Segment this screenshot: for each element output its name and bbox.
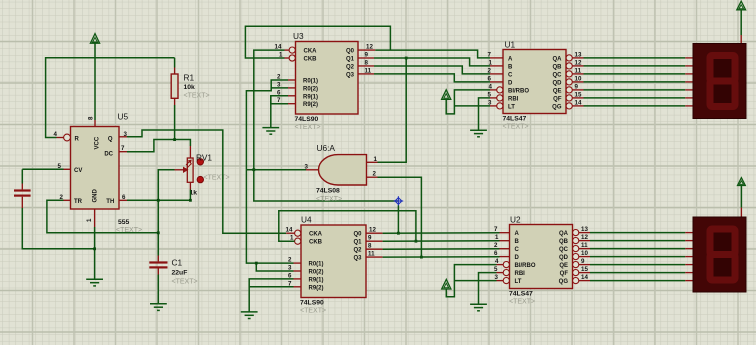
svg-text:8: 8: [365, 59, 369, 66]
svg-text:2: 2: [494, 242, 498, 249]
svg-text:10: 10: [575, 75, 582, 82]
svg-text:12: 12: [581, 234, 588, 241]
svg-text:12: 12: [366, 44, 373, 51]
U2 right bubbles and stubs: [573, 230, 579, 236]
svg-text:VCC: VCC: [95, 136, 101, 149]
svg-text:13: 13: [575, 51, 582, 58]
svg-text:74LS90: 74LS90: [300, 299, 324, 306]
svg-text:QA: QA: [553, 56, 563, 62]
svg-text:<TEXT>: <TEXT>: [509, 299, 535, 306]
wire U4 Q0 to U2 A: [383, 232, 500, 234]
svg-text:9: 9: [575, 83, 579, 90]
wire U3 Q1 to U1 B: [374, 58, 490, 66]
svg-text:10k: 10k: [184, 84, 196, 91]
svg-text:11: 11: [581, 242, 588, 249]
svg-text:<TEXT>: <TEXT>: [503, 124, 529, 131]
svg-text:LT: LT: [515, 279, 522, 285]
svg-text:Q1: Q1: [346, 57, 355, 63]
svg-text:A: A: [508, 56, 513, 62]
svg-text:11: 11: [365, 67, 372, 74]
svg-text:B: B: [508, 64, 513, 70]
svg-text:7: 7: [121, 145, 125, 152]
wire U6 output to reset column: [246, 169, 306, 171]
svg-text:<TEXT>: <TEXT>: [172, 279, 198, 286]
svg-text:R9(2): R9(2): [309, 285, 324, 291]
wire U3 Q2 to U1 C: [374, 66, 490, 74]
counter U4 (74LS90): [301, 225, 366, 298]
wire U2 RBI to ground: [479, 273, 497, 305]
wire U3 Q3 to U1 D: [374, 74, 490, 82]
node (junction diamond): [394, 196, 404, 206]
svg-text:10: 10: [581, 250, 588, 257]
svg-text:QD: QD: [559, 255, 569, 261]
svg-text:QG: QG: [559, 279, 569, 285]
svg-text:74LS08: 74LS08: [316, 187, 340, 194]
svg-text:R0(1): R0(1): [309, 262, 324, 268]
svg-text:B: B: [515, 239, 520, 245]
svg-text:9: 9: [368, 235, 372, 242]
U5 pin stubs: [64, 134, 71, 141]
wire display 2 power pin: [740, 186, 742, 208]
svg-text:BI/RBO: BI/RBO: [515, 263, 536, 269]
svg-text:TR: TR: [74, 199, 83, 205]
svg-text:Q3: Q3: [346, 72, 355, 78]
svg-text:555: 555: [118, 219, 130, 226]
wire U3 R0 tie and return to U6 output: [246, 80, 288, 170]
svg-text:CKB: CKB: [309, 240, 323, 246]
svg-text:C: C: [508, 72, 513, 78]
wire U3 Q0 to U1 A (staircase): [375, 50, 490, 58]
capacitor C1: [157, 256, 159, 262]
counter U3 (74LS90): [296, 42, 359, 115]
decoder U2 (74LS47): [510, 225, 573, 289]
svg-text:R0(2): R0(2): [303, 86, 318, 92]
svg-text:9: 9: [581, 258, 585, 265]
wire TR(2) loop to C1 column: [47, 200, 158, 233]
U4 pin stubs and bubbles: [295, 230, 301, 236]
svg-text:R9(1): R9(1): [309, 277, 324, 283]
wire U1 QA-QG to display 1: [584, 58, 686, 106]
wire U3 CKA from AND gate column: [254, 50, 399, 201]
svg-text:74LS47: 74LS47: [509, 291, 533, 298]
wire diamond down to U4 Q0 row: [397, 205, 399, 233]
wire power stem to U5 pin 8: [94, 43, 96, 120]
svg-text:8: 8: [368, 243, 372, 250]
wire C2 bottom to U5 ground column: [22, 208, 94, 249]
svg-text:U1: U1: [505, 40, 516, 50]
U1 left pin stubs: [490, 57, 503, 59]
svg-text:14: 14: [581, 274, 588, 281]
svg-text:6: 6: [488, 75, 492, 82]
wire U3 CKB from Q0 (over the top): [245, 26, 390, 58]
svg-text:6: 6: [122, 194, 126, 201]
svg-text:QB: QB: [559, 239, 569, 245]
wire U1 BI/RBO to power: [446, 90, 490, 114]
svg-text:LT: LT: [508, 104, 515, 110]
svg-text:QC: QC: [553, 72, 563, 78]
svg-text:Q0: Q0: [346, 49, 355, 55]
U1 right bubbles and stubs: [566, 55, 572, 61]
svg-text:12: 12: [575, 59, 582, 66]
svg-text:6: 6: [494, 250, 498, 257]
wire U1 RBI to ground: [479, 98, 491, 130]
svg-text:14: 14: [286, 227, 293, 234]
ground (U5 pin 1): [86, 279, 103, 286]
wire U2 LT to power column: [454, 280, 496, 282]
svg-text:CKA: CKA: [304, 49, 318, 55]
U6 input pins 1,2: [367, 161, 378, 163]
decoder U1 (74LS47): [503, 50, 566, 114]
svg-text:<TEXT>: <TEXT>: [184, 93, 210, 100]
svg-text:DC: DC: [104, 151, 113, 157]
wire U4 CKB from Q1 (loop over): [279, 211, 416, 242]
svg-text:8: 8: [88, 116, 95, 120]
svg-text:RBI: RBI: [515, 271, 526, 277]
svg-text:13: 13: [581, 226, 588, 233]
svg-text:22uF: 22uF: [172, 270, 188, 277]
svg-text:2: 2: [373, 171, 377, 178]
svg-text:3: 3: [124, 131, 128, 138]
wire U4 Q2 to U2 C: [383, 248, 500, 250]
svg-text:<TEXT>: <TEXT>: [316, 196, 342, 203]
wire U5 pin1 down to ground: [94, 227, 96, 279]
svg-text:11: 11: [368, 251, 375, 258]
svg-text:11: 11: [575, 67, 582, 74]
wire U4 Q1 to U2 B: [383, 240, 500, 242]
wire U2 QA-QG to display 2: [590, 233, 685, 281]
wire U4 R0 pins to U6 output column: [246, 170, 293, 263]
ground (U1 RBI): [470, 130, 487, 137]
wire C1 bottom to ground: [157, 275, 159, 304]
wire CV(5) to C2 top: [22, 168, 63, 170]
svg-text:R1: R1: [184, 73, 195, 83]
wire U6 input1 up to U3 Q1: [378, 58, 407, 162]
7-segment display (top): [693, 44, 746, 119]
wire U4 Q3 to U2 D: [383, 256, 500, 258]
svg-text:Q2: Q2: [353, 248, 362, 254]
svg-text:QE: QE: [553, 88, 562, 94]
svg-text:74LS47: 74LS47: [503, 116, 527, 123]
svg-text:QC: QC: [559, 247, 569, 253]
U6 output pin 3: [306, 169, 319, 171]
svg-text:U4: U4: [301, 215, 312, 225]
svg-text:2: 2: [488, 67, 492, 74]
svg-text:D: D: [508, 80, 513, 86]
wire TH(6) to RV1 bottom: [127, 199, 190, 201]
svg-text:<TEXT>: <TEXT>: [204, 175, 230, 182]
ground (U2 RBI): [470, 304, 487, 311]
svg-text:QD: QD: [553, 80, 563, 86]
svg-text:QF: QF: [553, 96, 562, 102]
svg-text:<TEXT>: <TEXT>: [300, 308, 326, 315]
RV1 wiper arrow: [175, 169, 185, 171]
power terminal (display 2): [738, 178, 746, 186]
7-segment display (bottom): [693, 217, 746, 292]
svg-text:Q: Q: [108, 136, 113, 142]
svg-text:C1: C1: [172, 258, 183, 268]
power terminal (U2 LT/BI): [442, 279, 451, 289]
svg-text:R: R: [75, 136, 80, 142]
ground (C1): [150, 304, 167, 311]
svg-text:R9(2): R9(2): [303, 102, 318, 108]
svg-text:7: 7: [488, 51, 492, 58]
svg-text:1: 1: [374, 156, 378, 163]
svg-text:1: 1: [495, 234, 499, 241]
U2 left pin stubs: [500, 232, 510, 234]
svg-text:15: 15: [575, 91, 582, 98]
svg-text:BI/RBO: BI/RBO: [508, 88, 529, 94]
svg-text:RBI: RBI: [508, 96, 519, 102]
svg-text:74LS90: 74LS90: [295, 116, 319, 123]
svg-text:GND: GND: [93, 189, 99, 203]
svg-text:Q3: Q3: [353, 256, 362, 262]
wire U6 input2 down to U4 Q3: [378, 177, 422, 257]
555 timer U5: [71, 127, 120, 210]
svg-text:U5: U5: [118, 112, 129, 122]
wire wiper to C1 column: [158, 170, 174, 256]
svg-text:QF: QF: [560, 271, 569, 277]
wire U1 LT to power column: [454, 105, 490, 107]
svg-text:Q2: Q2: [346, 64, 355, 70]
svg-text:CV: CV: [74, 168, 82, 174]
svg-text:QA: QA: [559, 231, 569, 237]
wire R(4) to R1 top: [46, 58, 175, 138]
svg-text:R0(2): R0(2): [309, 270, 324, 276]
power terminal (display 1): [737, 1, 746, 10]
svg-text:R9(1): R9(1): [303, 94, 318, 100]
U3 pin stubs and bubbles: [289, 47, 295, 53]
svg-text:15: 15: [581, 266, 588, 273]
svg-text:<TEXT>: <TEXT>: [295, 124, 321, 131]
svg-text:Q1: Q1: [353, 240, 362, 246]
AND gate U6:A (74LS08, mirrored): [319, 155, 367, 185]
svg-text:A: A: [515, 231, 520, 237]
wire U2 BI/RBO to power: [446, 265, 496, 297]
svg-text:9: 9: [365, 52, 369, 59]
svg-text:QG: QG: [552, 104, 562, 110]
potentiometer RV1: [189, 146, 191, 158]
svg-text:R0(1): R0(1): [303, 79, 318, 85]
capacitor C2 (left, to CV): [21, 169, 23, 183]
wire display 1 power pin: [740, 10, 742, 35]
wire Q(3) of 555 down to U4 CKA: [127, 130, 286, 233]
svg-text:12: 12: [369, 227, 376, 234]
svg-text:U3: U3: [293, 31, 304, 41]
svg-text:QB: QB: [553, 64, 563, 70]
ground (U4 R9): [249, 279, 293, 312]
svg-text:RV1: RV1: [196, 153, 212, 163]
power terminal VCC (top-left, feeds 555 pin 8): [90, 34, 99, 44]
svg-text:14: 14: [575, 99, 582, 106]
svg-text:TH: TH: [106, 199, 114, 205]
svg-text:U2: U2: [510, 215, 521, 225]
svg-text:CKA: CKA: [309, 232, 323, 238]
svg-text:7: 7: [494, 226, 498, 233]
svg-text:D: D: [515, 255, 520, 261]
svg-text:C: C: [515, 247, 520, 253]
svg-text:U6:A: U6:A: [317, 143, 336, 153]
svg-text:Q0: Q0: [353, 232, 362, 238]
svg-text:1: 1: [489, 59, 493, 66]
svg-text:QE: QE: [559, 263, 568, 269]
resistor R1: [174, 68, 176, 75]
wire R1 bottom to DC(7) and RV1 top: [174, 105, 176, 140]
svg-text:1: 1: [86, 218, 93, 222]
ground (U3 R9): [271, 96, 288, 104]
svg-text:CKB: CKB: [304, 57, 318, 63]
power terminal (U1 LT/BI): [442, 90, 451, 100]
